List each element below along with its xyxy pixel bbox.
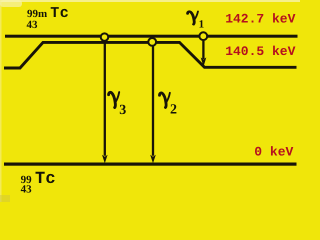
- gamma-1 transition label: [188, 11, 198, 24]
- node circle on 142.7 line (gamma-1 origin): [199, 32, 207, 40]
- svg-text:1: 1: [199, 19, 205, 31]
- gamma-1 arrow shaft: [202, 41, 204, 59]
- pale scan edge left: [0, 0, 2, 202]
- svg-text:142.7 keV: 142.7 keV: [225, 11, 295, 26]
- gamma-2 arrowhead: [150, 155, 156, 164]
- level line 142.7 keV: [5, 35, 298, 38]
- gamma-3 transition label: [109, 92, 120, 107]
- svg-text:Tc: Tc: [35, 170, 56, 189]
- ground level line 0 keV: [4, 163, 297, 166]
- node circle on 140.5 line (gamma-2 origin): [148, 38, 156, 46]
- gamma-2 transition label: [159, 93, 169, 108]
- scan smudge bottom-left corner: [0, 195, 10, 202]
- svg-text:43: 43: [21, 183, 32, 195]
- svg-text:2: 2: [170, 103, 177, 118]
- svg-text:140.5 keV: 140.5 keV: [225, 44, 295, 59]
- pale scan blob top-left corner: [0, 0, 22, 7]
- gamma-1 arrowhead: [201, 57, 207, 66]
- gamma-3 arrowhead: [102, 155, 108, 164]
- svg-text:0 keV: 0 keV: [254, 145, 293, 160]
- gamma-2 arrow shaft: [152, 46, 154, 156]
- level line 140.5 keV (offset polyline): [4, 42, 297, 68]
- gamma-3 arrow shaft: [104, 42, 106, 156]
- svg-text:43: 43: [27, 19, 39, 31]
- svg-text:Tc: Tc: [50, 5, 69, 22]
- node circle on 142.7 line (gamma-3 origin): [101, 33, 109, 41]
- pale scan edge top: [0, 0, 300, 2]
- svg-text:3: 3: [119, 103, 126, 118]
